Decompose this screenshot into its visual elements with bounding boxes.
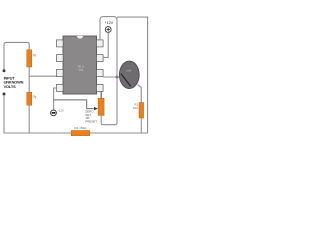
wire pot bottom around up to supply box [100,17,117,125]
IC notch [77,36,84,39]
svg-text:+12V: +12V [105,21,114,25]
resistor R1 [71,131,90,136]
pin 6 [97,70,104,77]
op-amp IC1 body [63,36,97,94]
pin 2 [57,55,64,62]
pin 4 [57,84,64,91]
pin 3 [57,70,64,77]
wire R2 to rail [140,118,142,133]
plus mark [107,28,110,31]
pin 7 [97,55,104,62]
wire meter to R2 [138,85,142,103]
minus bar [52,112,56,114]
svg-text:Rx: Rx [33,54,37,58]
resistor R2 [139,103,144,119]
svg-text:VOLTS: VOLTS [4,84,16,89]
svg-text:mA: mA [127,69,132,73]
terminal +12V [105,27,111,33]
junction hop [116,76,119,79]
wire top rail to right rail [117,17,148,133]
terminal -12V [51,110,57,116]
wire input-minus down to rail [3,95,5,133]
preset P1 zero set [98,98,104,115]
resistor Ry [27,92,32,105]
wire bottom rail [4,132,149,134]
pin 5 [97,84,104,91]
wire pot top to pin5 [100,92,102,99]
meter M1 body [119,61,139,88]
svg-text:R1 150Ω: R1 150Ω [75,126,88,130]
meter needle [121,74,130,86]
wire pin4 to minus terminal [54,88,57,110]
svg-text:-12V: -12V [58,109,64,113]
svg-text:Ry: Ry [33,95,37,99]
svg-text:741: 741 [79,68,84,72]
wire Rx bottom to Ry top [28,67,30,92]
wire input-plus loop to Rx [4,42,29,69]
wiper arrowhead [94,107,98,110]
svg-text:PRESET: PRESET [85,120,97,124]
wire pin6 to meter [103,76,120,78]
wire Ry bottom to rail [28,105,30,133]
wire junction to IC pin3 [29,75,56,77]
terminal input minus [3,93,6,96]
svg-text:2K2: 2K2 [133,106,138,110]
pin 8 [97,40,104,47]
wire wiper feed [54,100,94,109]
wire +12V to pin7 [103,32,108,57]
resistor Rx [27,50,32,67]
pin 1 [57,40,64,47]
terminal input plus [3,69,6,72]
